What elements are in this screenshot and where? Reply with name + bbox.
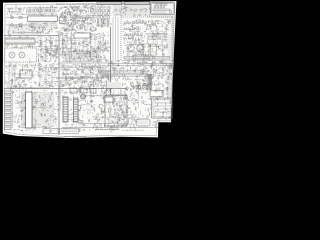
wire to tuner 2 <box>6 24 27 26</box>
PSU regulator IC <box>104 97 113 102</box>
flyback cage box <box>150 91 163 97</box>
left DIP IC plan view <box>5 38 35 44</box>
wire mesh: PSU area <box>61 85 139 132</box>
perforation tick row <box>147 16 173 18</box>
CRT neck ellipse <box>150 21 167 35</box>
wire bus bottom <box>62 60 101 62</box>
wire mesh: left-middle IF area <box>5 36 59 89</box>
antenna input circle J2 <box>11 24 14 27</box>
modulator parts <box>153 3 172 13</box>
bottom text row mid <box>95 128 119 130</box>
IF IC U201 <box>74 33 90 38</box>
wire to tuner <box>6 17 27 19</box>
top-left corner wires <box>7 6 26 14</box>
video amp block 2 <box>151 44 157 55</box>
RF modulator inner border <box>152 3 174 13</box>
section divider V1 <box>58 31 60 135</box>
scan shade band <box>107 82 121 88</box>
mid-lower horizontal wires <box>60 66 108 82</box>
tuner IC lower pins <box>28 21 57 28</box>
legend box ticks <box>44 129 49 131</box>
PSU top boxes <box>70 88 96 93</box>
PSU bottom box <box>118 115 132 124</box>
tuner IC U101 body <box>28 16 58 21</box>
video amp circle 1 <box>145 56 148 59</box>
shield inner box <box>153 100 171 117</box>
connector bar CN2 (hatched) <box>124 2 150 5</box>
inline filter L1 <box>19 16 22 18</box>
legend box 2 <box>51 129 58 134</box>
component squares in wire field <box>115 9 146 11</box>
dotted box shade band <box>168 34 173 58</box>
bus wires down <box>63 52 101 61</box>
PSU rail bottom <box>62 126 158 128</box>
legend box 1 <box>43 129 50 134</box>
section divider H2 <box>4 35 59 37</box>
PSU rail top <box>80 95 127 97</box>
legend box 3 <box>60 129 79 134</box>
inline filter L2 <box>19 24 22 26</box>
wire mesh: east wire area <box>100 62 172 95</box>
wire bus top <box>62 51 101 53</box>
micro left pins <box>21 93 26 128</box>
wire mesh: tuner area <box>7 6 59 36</box>
bridge rectifier box 1 <box>136 86 140 90</box>
page (scanned schematic sheet) <box>3 1 177 138</box>
video amp circle 2 <box>152 56 155 59</box>
legend text row 1 <box>61 129 77 131</box>
top rail wire <box>28 7 57 9</box>
flyback winding (dark vertical bundle) <box>147 74 152 90</box>
PSU transformer core B <box>74 98 79 122</box>
connector column (stacked plugs) <box>5 91 12 130</box>
AC connector plug <box>136 119 150 126</box>
DIP IC pin dots <box>6 38 34 40</box>
tuner IC upper pins <box>28 8 57 16</box>
long interconnect wires <box>6 15 163 128</box>
deflection wires horizontal <box>108 63 172 65</box>
wires above DIP <box>8 24 42 35</box>
deflection transistor row <box>126 83 146 89</box>
PSU transformer core A <box>63 97 68 122</box>
IF transformer cross 2 <box>20 53 24 57</box>
micro wires right <box>37 93 55 127</box>
transistor Q202 <box>82 17 85 20</box>
RF modulator box (rounded) <box>151 2 175 15</box>
CRT transformer T301 <box>128 45 134 51</box>
resistor squares above tuner pins <box>29 10 54 12</box>
title text <box>56 3 96 5</box>
section divider H1 <box>4 88 127 90</box>
CRT socket pin row <box>124 57 170 60</box>
IF transformer cross 1 <box>10 53 14 57</box>
horizontal wire bundle <box>100 71 152 77</box>
section divider V2 <box>110 27 112 95</box>
DIP IC pin ticks <box>6 38 35 40</box>
connector bar CN1 (hatched) <box>97 2 122 5</box>
black scan background <box>0 0 200 141</box>
antenna input circle J1 <box>11 16 14 19</box>
wire field under connector bars <box>113 5 151 16</box>
bottom caption text <box>64 135 86 137</box>
lower-left vertical wires <box>9 64 52 87</box>
CRT board part row 1 <box>124 22 146 35</box>
right wire bundle <box>168 16 172 108</box>
wires below resistor grid <box>97 19 110 27</box>
CRT board box (dotted) <box>121 17 173 61</box>
video amp block 1 <box>143 44 149 55</box>
wire mesh: CRT board interior <box>123 19 172 56</box>
CRT socket resistor 2 <box>158 37 161 38</box>
transistor Q203 <box>90 8 93 11</box>
DIP IC pin dots 2 <box>6 42 34 44</box>
micro IC U801 body <box>26 92 33 128</box>
wire mesh: micro area <box>13 90 60 132</box>
resistor network column lines <box>98 6 109 28</box>
connector bus wire <box>12 90 14 128</box>
wire mesh: flyback area <box>107 93 171 127</box>
legend text row 2 <box>61 131 77 133</box>
sub-board box bottom middle-right <box>105 95 127 126</box>
jungle vertical wires <box>63 33 103 51</box>
bridge rectifier box 2 <box>143 86 147 90</box>
vertical wires to CRT board <box>113 17 118 62</box>
IF transformer circle 1 <box>9 52 15 58</box>
block right of tuner <box>60 17 66 24</box>
transformer frame <box>127 45 144 53</box>
sheet border frame <box>5 3 175 136</box>
deflection wires horizontal 2 <box>108 65 174 67</box>
louvre lines <box>154 103 171 112</box>
wire mesh: jungle area <box>59 32 110 87</box>
block B1 <box>20 70 32 78</box>
IF transformer circle 2 <box>19 52 25 58</box>
CRT transformer T302 <box>137 45 143 51</box>
bottom parts row right <box>122 130 144 132</box>
CRT socket wires <box>147 34 168 40</box>
shield outer box <box>152 98 173 118</box>
transistor Q201 <box>67 11 70 14</box>
wire mesh: deflection area <box>110 60 172 93</box>
section divider H3 <box>59 62 110 64</box>
resistor network grid <box>97 7 110 19</box>
component column K1 <box>40 37 57 61</box>
CRT socket resistor 1 <box>152 34 155 35</box>
micro right pins <box>32 93 37 128</box>
degauss circle <box>81 94 86 99</box>
IF dashed box <box>5 48 37 62</box>
AC connector hatch <box>138 121 149 125</box>
wire mesh: top-middle video area <box>60 5 98 32</box>
wire mesh: top connector fan-out <box>96 5 152 27</box>
H-out IC <box>133 55 149 59</box>
